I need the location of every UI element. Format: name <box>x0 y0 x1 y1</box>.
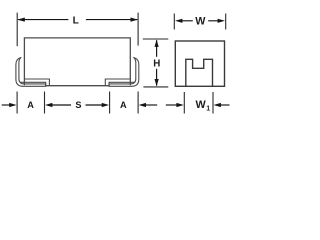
right terminal hairpin/step <box>105 79 130 86</box>
svg-text:1: 1 <box>206 106 210 113</box>
dimension H: line and arrows <box>155 40 159 87</box>
dimension L: line and arrows <box>17 18 137 22</box>
dimension W: extension lines <box>174 14 225 30</box>
capacitor body (front view) <box>24 38 130 86</box>
svg-text:S: S <box>75 100 81 110</box>
S right arrow pointing right <box>86 104 104 106</box>
outside arrow at far left pointing right <box>2 104 11 106</box>
svg-text:W: W <box>195 99 206 111</box>
side view: terminal with notch <box>186 59 213 86</box>
dimension L: extension lines <box>17 13 138 47</box>
svg-text:W: W <box>195 15 206 27</box>
dimension W: arrows <box>175 19 225 23</box>
svg-text:A: A <box>27 100 34 110</box>
bottom row arrows <box>2 103 158 107</box>
right terminal band <box>109 57 139 86</box>
outside arrow right of right A pointing left <box>139 103 146 107</box>
dimension W1: outside arrows <box>166 103 230 107</box>
bottom row extension lines <box>17 92 138 114</box>
dimension H: extension lines <box>143 39 169 87</box>
svg-text:H: H <box>153 59 160 70</box>
left terminal hairpin/step <box>25 79 50 86</box>
side view: outer square <box>175 41 224 86</box>
S left arrow pointing left <box>45 103 52 107</box>
svg-text:L: L <box>73 16 79 27</box>
left terminal band <box>16 57 46 86</box>
dimension W1: extension lines <box>184 92 213 114</box>
svg-text:A: A <box>120 100 127 110</box>
